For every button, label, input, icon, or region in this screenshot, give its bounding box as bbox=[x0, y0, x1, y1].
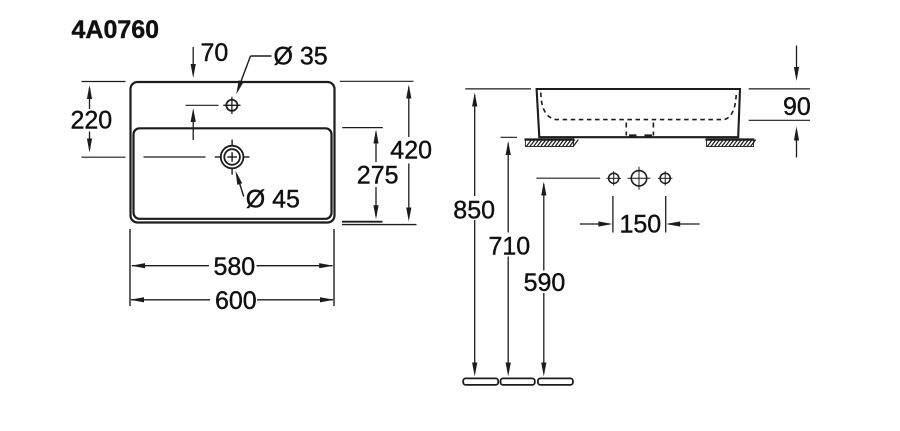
dimension 90 upper arrow bbox=[796, 46, 798, 75]
drain hole inner circle bbox=[224, 149, 240, 165]
dimension 220 bottom extension line bbox=[82, 156, 126, 158]
left mounting hatch strip bbox=[525, 139, 579, 147]
floor line segment 3 bbox=[538, 378, 573, 385]
fixing hole small right bbox=[660, 173, 670, 183]
drain hole outer circle bbox=[221, 146, 244, 169]
inner bowl hidden dashed outline bbox=[541, 93, 737, 120]
leader line for diameter 45 bbox=[237, 175, 244, 197]
dimension 850 top extension line bbox=[465, 88, 531, 90]
dimension 580 line with arrows bbox=[132, 265, 209, 267]
dimension 90 top extension line bbox=[749, 88, 810, 90]
svg-text:850: 850 bbox=[453, 196, 495, 224]
dimension 275 bottom extension line bbox=[342, 221, 383, 223]
svg-text:4A0760: 4A0760 bbox=[72, 16, 160, 44]
basin outer outline (front view) bbox=[131, 82, 335, 223]
floor line segment 2 bbox=[501, 378, 535, 385]
dimension 150 extension lines bbox=[612, 196, 614, 233]
width extension line left bbox=[129, 229, 131, 306]
dimension 220 line with arrows bbox=[89, 88, 91, 109]
dimension 275 line with arrows bbox=[375, 132, 377, 162]
fixing holes extension line bbox=[536, 177, 600, 179]
svg-text:580: 580 bbox=[214, 253, 256, 281]
fixing hole center large bbox=[631, 171, 646, 186]
faucet hole center cross bbox=[223, 104, 240, 106]
floor line segment 1 bbox=[463, 378, 498, 385]
faucet center extension line bbox=[186, 104, 219, 106]
width extension line right bbox=[333, 229, 335, 306]
dimension 220 top extension line bbox=[82, 81, 126, 83]
svg-text:220: 220 bbox=[71, 107, 113, 135]
dimension 150 left arrow bbox=[580, 223, 610, 225]
dimension 90 bottom extension line bbox=[749, 119, 810, 121]
svg-text:710: 710 bbox=[489, 233, 531, 261]
dimension 150 right arrow bbox=[669, 223, 700, 225]
svg-text:Ø 45: Ø 45 bbox=[246, 186, 300, 214]
dimension 590 line with arrows bbox=[543, 184, 545, 271]
drain hidden dashed lines bbox=[625, 123, 627, 136]
dimension 70 lower arrow bbox=[192, 112, 194, 140]
drain center line left bbox=[144, 156, 206, 158]
svg-text:90: 90 bbox=[783, 93, 811, 121]
svg-text:600: 600 bbox=[215, 287, 257, 315]
faucet hole circle bbox=[226, 100, 237, 111]
dimension 420 line with arrows bbox=[408, 87, 410, 137]
dimension 90 lower arrow bbox=[796, 131, 798, 158]
dimension 850 line with arrows bbox=[474, 95, 476, 196]
dimension 710 line with arrows bbox=[507, 144, 509, 233]
fixing hole small left bbox=[609, 173, 619, 183]
svg-text:150: 150 bbox=[620, 211, 662, 239]
dimension 600 line with arrows bbox=[131, 299, 210, 301]
right mounting hatch strip bbox=[706, 139, 756, 147]
basin inner bowl rim bbox=[134, 128, 332, 219]
svg-text:420: 420 bbox=[390, 137, 432, 165]
dimension 275 top extension line bbox=[342, 127, 383, 129]
leader line for diameter 35 bbox=[251, 55, 272, 57]
dimension 710 top extension line bbox=[501, 136, 518, 138]
drain center mark vertical ticks bbox=[231, 140, 233, 147]
svg-text:590: 590 bbox=[524, 269, 566, 297]
dimension 420 bottom extension line bbox=[342, 224, 417, 226]
basin side profile outline bbox=[537, 89, 740, 137]
drain center mark horizontal ticks bbox=[215, 156, 222, 158]
svg-text:Ø 35: Ø 35 bbox=[274, 43, 328, 71]
dimension 420 top extension line bbox=[340, 80, 414, 82]
svg-text:275: 275 bbox=[357, 162, 399, 190]
svg-text:70: 70 bbox=[201, 39, 229, 67]
dimension 70 upper arrow bbox=[192, 47, 194, 72]
